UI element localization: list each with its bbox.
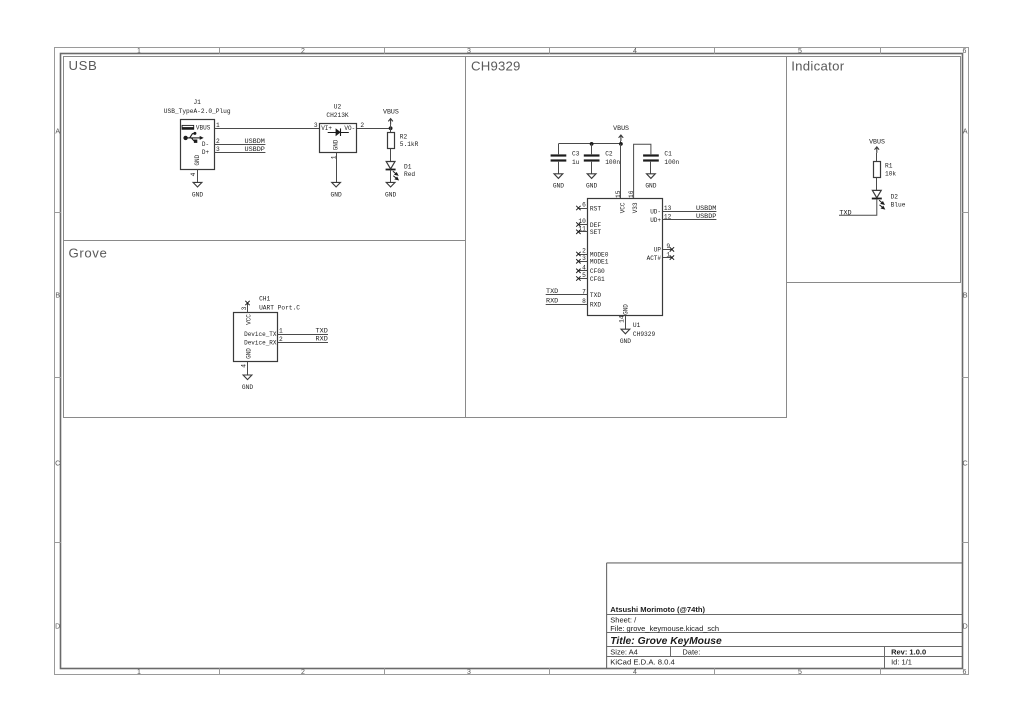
svg-text:MODE0: MODE0: [590, 251, 609, 258]
wire U1 pin14 to ground: [625, 316, 627, 329]
svg-text:R2: R2: [400, 134, 408, 141]
svg-text:USBDM: USBDM: [696, 205, 716, 213]
LED D2 symbol: [872, 190, 881, 197]
svg-text:1: 1: [216, 122, 220, 129]
wire VBUS horizontal bus to C3: [558, 143, 621, 145]
svg-text:GND: GND: [553, 183, 564, 190]
wire VBUS vertical to bus: [620, 141, 622, 144]
wire D2 to TXD: [839, 199, 877, 216]
svg-text:2: 2: [582, 248, 586, 255]
svg-text:15: 15: [615, 190, 622, 198]
svg-text:C1: C1: [664, 150, 672, 157]
wire CH1 pin4 to ground: [247, 362, 249, 375]
wire J1 pin2 (USBDM): [215, 144, 266, 146]
svg-text:GND: GND: [331, 191, 342, 198]
svg-text:DEF: DEF: [590, 222, 601, 229]
svg-text:10k: 10k: [885, 170, 896, 177]
svg-text:GND: GND: [242, 384, 253, 391]
svg-text:5.1kR: 5.1kR: [400, 141, 419, 148]
svg-text:MODE1: MODE1: [590, 259, 609, 266]
svg-text:UD+: UD+: [650, 217, 661, 224]
frame column ticks bottom: [219, 668, 221, 674]
svg-text:2: 2: [360, 122, 364, 129]
regulator U2 body: [320, 124, 357, 153]
svg-text:CH9329: CH9329: [633, 331, 656, 338]
svg-text:CFG1: CFG1: [590, 276, 605, 283]
wire V33 pin16 to C1: [634, 144, 651, 199]
svg-text:100n: 100n: [605, 159, 620, 166]
svg-text:2: 2: [279, 336, 283, 343]
svg-text:TXD: TXD: [590, 292, 601, 299]
svg-text:Id: 1/1: Id: 1/1: [891, 658, 912, 667]
svg-text:1: 1: [137, 48, 141, 55]
svg-text:GND: GND: [385, 191, 396, 198]
J1 usb plug glyph: [182, 125, 194, 129]
svg-text:V33: V33: [632, 202, 639, 213]
svg-text:TXD: TXD: [316, 327, 328, 335]
svg-text:C2: C2: [605, 150, 613, 157]
svg-text:D1: D1: [404, 163, 412, 170]
svg-text:Indicator: Indicator: [791, 59, 845, 74]
resistor R2 body: [388, 133, 395, 149]
wire R1 to D2: [876, 178, 878, 191]
svg-text:Grove: Grove: [69, 245, 108, 260]
svg-text:VBUS: VBUS: [869, 139, 885, 146]
wire U2 VO- to VBUS node: [357, 128, 391, 130]
svg-text:ACT#: ACT#: [647, 255, 662, 262]
svg-text:A: A: [963, 129, 968, 136]
svg-text:6: 6: [582, 202, 586, 209]
U1 pin 6 RST (no-connect): [578, 208, 587, 210]
power symbol VBUS (USB section): [388, 119, 393, 125]
sheet inner border: [61, 54, 963, 669]
frame row ticks right: [962, 212, 968, 214]
IC U1 CH9329 body: [588, 199, 663, 316]
ground below U2: [332, 182, 341, 187]
svg-text:VBUS: VBUS: [613, 125, 629, 132]
svg-text:11: 11: [578, 226, 586, 233]
svg-text:GND: GND: [333, 139, 340, 150]
wire CH1 pin2 (RXD): [278, 342, 329, 344]
svg-text:3: 3: [582, 255, 586, 262]
svg-text:GND: GND: [245, 348, 252, 359]
capacitor C3: [558, 144, 560, 154]
svg-text:VCC: VCC: [619, 202, 626, 213]
svg-text:USB: USB: [69, 58, 98, 73]
svg-text:2: 2: [216, 138, 220, 145]
U1 pin 10 DEF (no-connect): [578, 224, 587, 226]
ground below C3: [554, 174, 563, 179]
J1 usb trident icon: [183, 132, 203, 143]
svg-text:C3: C3: [572, 150, 580, 157]
svg-text:D2: D2: [891, 194, 899, 201]
U1 pin 11 SET (no-connect): [578, 231, 587, 233]
svg-text:C: C: [55, 461, 60, 468]
svg-text:C: C: [963, 461, 968, 468]
svg-text:B: B: [55, 293, 60, 300]
svg-text:U2: U2: [334, 104, 342, 111]
svg-text:1: 1: [137, 669, 141, 676]
svg-text:4: 4: [633, 669, 637, 676]
wire J1 pin3 (USBDP): [215, 152, 266, 154]
svg-text:RXD: RXD: [316, 336, 328, 344]
section box Grove: [64, 241, 466, 418]
junction at C2 top: [590, 142, 594, 146]
svg-text:100n: 100n: [664, 159, 679, 166]
svg-text:KiCad E.D.A. 8.0.4: KiCad E.D.A. 8.0.4: [610, 658, 675, 667]
svg-text:R1: R1: [885, 163, 893, 170]
svg-text:Date:: Date:: [682, 648, 700, 657]
svg-text:USBDP: USBDP: [244, 146, 264, 154]
svg-text:Device_TX: Device_TX: [244, 331, 277, 338]
svg-text:USBDM: USBDM: [244, 138, 264, 146]
U1 pin 2 MODE0 (no-connect): [578, 254, 587, 256]
section box USB: [64, 57, 466, 241]
resistor R1 body: [874, 162, 881, 178]
ground below J1: [193, 182, 202, 187]
connector J1 USB_TypeA-2.0_Plug body: [181, 120, 215, 170]
svg-text:TXD: TXD: [839, 210, 851, 218]
capacitor C1: [643, 154, 659, 156]
svg-text:VO-: VO-: [344, 125, 355, 132]
svg-text:GND: GND: [192, 191, 203, 198]
svg-text:VBUS: VBUS: [383, 108, 399, 115]
svg-text:RST: RST: [590, 205, 601, 212]
svg-text:VI+: VI+: [321, 125, 332, 132]
svg-text:UD-: UD-: [650, 209, 661, 216]
svg-text:GND: GND: [194, 154, 201, 165]
svg-text:UART Port.C: UART Port.C: [259, 304, 300, 311]
svg-text:B: B: [963, 293, 968, 300]
U1 pin 5 CFG1 (no-connect): [578, 278, 587, 280]
power symbol VBUS (CH9329 section): [619, 135, 624, 141]
svg-text:CFG0: CFG0: [590, 268, 605, 275]
U1 pin 8 RXD: [546, 304, 588, 306]
svg-text:D-: D-: [202, 141, 209, 148]
svg-text:Atsushi Morimoto (@74th): Atsushi Morimoto (@74th): [610, 605, 705, 614]
svg-text:2: 2: [301, 669, 305, 676]
svg-text:Red: Red: [404, 171, 415, 178]
U1 pin 7 TXD: [546, 294, 588, 296]
svg-text:3: 3: [467, 48, 471, 55]
svg-text:14: 14: [618, 315, 625, 323]
ground below D1: [386, 182, 395, 187]
wire U2 pin1 to ground: [336, 153, 338, 183]
U1 pin 4 CFG0 (no-connect): [578, 270, 587, 272]
svg-text:6: 6: [963, 669, 967, 676]
svg-text:VCC: VCC: [245, 314, 252, 325]
svg-text:J1: J1: [193, 99, 201, 106]
svg-text:4: 4: [633, 48, 637, 55]
wire J1 pin1 to U2 VI+: [215, 128, 320, 130]
wire R2 to D1: [390, 149, 392, 162]
svg-text:Size: A4: Size: A4: [610, 648, 638, 657]
svg-text:D: D: [963, 624, 968, 631]
svg-text:5: 5: [798, 669, 802, 676]
svg-text:3: 3: [216, 146, 220, 153]
svg-text:5: 5: [582, 272, 586, 279]
LED D1 symbol: [386, 162, 395, 169]
svg-text:10: 10: [578, 218, 586, 225]
svg-text:4: 4: [240, 364, 247, 368]
svg-text:RXD: RXD: [546, 298, 558, 306]
wire J1 pin4 to ground: [197, 170, 199, 183]
wire VBUS to R1: [876, 153, 878, 162]
svg-text:VBUS: VBUS: [196, 125, 211, 132]
svg-text:1u: 1u: [572, 159, 580, 166]
svg-text:8: 8: [582, 298, 586, 305]
svg-text:GND: GND: [620, 338, 631, 345]
frame column ticks top: [219, 47, 221, 54]
ground below C2: [587, 174, 596, 179]
svg-text:D+: D+: [202, 149, 210, 156]
svg-text:6: 6: [963, 48, 967, 55]
wire VCC pin15 vertical: [620, 144, 622, 199]
svg-text:7: 7: [582, 289, 586, 296]
wire D1 to ground: [390, 170, 392, 183]
svg-text:USBDP: USBDP: [696, 213, 716, 221]
svg-text:UP: UP: [654, 247, 662, 254]
svg-text:SET: SET: [590, 229, 601, 236]
svg-text:4: 4: [190, 172, 197, 176]
wire CH1 pin1 (TXD): [278, 334, 329, 336]
svg-text:Title: Grove KeyMouse: Title: Grove KeyMouse: [610, 636, 722, 647]
connector CH1 UART Port.C body: [234, 313, 278, 362]
svg-text:Device_RX: Device_RX: [244, 339, 277, 346]
svg-text:5: 5: [798, 48, 802, 55]
svg-text:USB_TypeA-2.0_Plug: USB_TypeA-2.0_Plug: [164, 108, 231, 115]
svg-text:3: 3: [314, 122, 318, 129]
capacitor C2: [591, 144, 593, 154]
svg-text:A: A: [55, 129, 60, 136]
section box CH9329: [466, 57, 787, 418]
svg-text:RXD: RXD: [590, 302, 601, 309]
svg-text:TXD: TXD: [546, 288, 558, 296]
power symbol VBUS (Indicator): [875, 147, 880, 153]
junction at VBUS/VCC: [619, 142, 623, 146]
svg-text:CH9329: CH9329: [471, 58, 521, 73]
junction VBUS node: [389, 126, 393, 130]
U2 internal diode: [328, 132, 349, 134]
svg-text:Rev: 1.0.0: Rev: 1.0.0: [891, 648, 926, 657]
svg-text:File: grove_keymouse.kicad_sch: File: grove_keymouse.kicad_sch: [610, 624, 719, 633]
svg-text:GND: GND: [623, 304, 630, 315]
svg-text:3: 3: [241, 306, 248, 310]
svg-text:CH213K: CH213K: [326, 112, 349, 119]
svg-text:2: 2: [301, 48, 305, 55]
svg-text:U1: U1: [633, 322, 641, 329]
svg-text:3: 3: [467, 669, 471, 676]
sheet outer border: [55, 48, 969, 675]
ground below CH1: [243, 375, 252, 380]
svg-text:D: D: [55, 624, 60, 631]
CH1 pin 3 no-connect: [247, 303, 249, 313]
svg-text:16: 16: [628, 190, 635, 198]
svg-text:GND: GND: [586, 183, 597, 190]
svg-text:1: 1: [279, 328, 283, 335]
svg-text:CH1: CH1: [259, 295, 270, 302]
U1 pin 3 MODE1 (no-connect): [578, 261, 587, 263]
svg-text:4: 4: [582, 265, 586, 272]
ground below C1: [647, 174, 656, 179]
section box Indicator: [787, 57, 961, 283]
ground below U1: [621, 329, 630, 334]
svg-text:Blue: Blue: [891, 202, 906, 209]
svg-text:GND: GND: [645, 183, 656, 190]
title block frame: [607, 563, 963, 668]
frame row ticks left: [55, 212, 62, 214]
